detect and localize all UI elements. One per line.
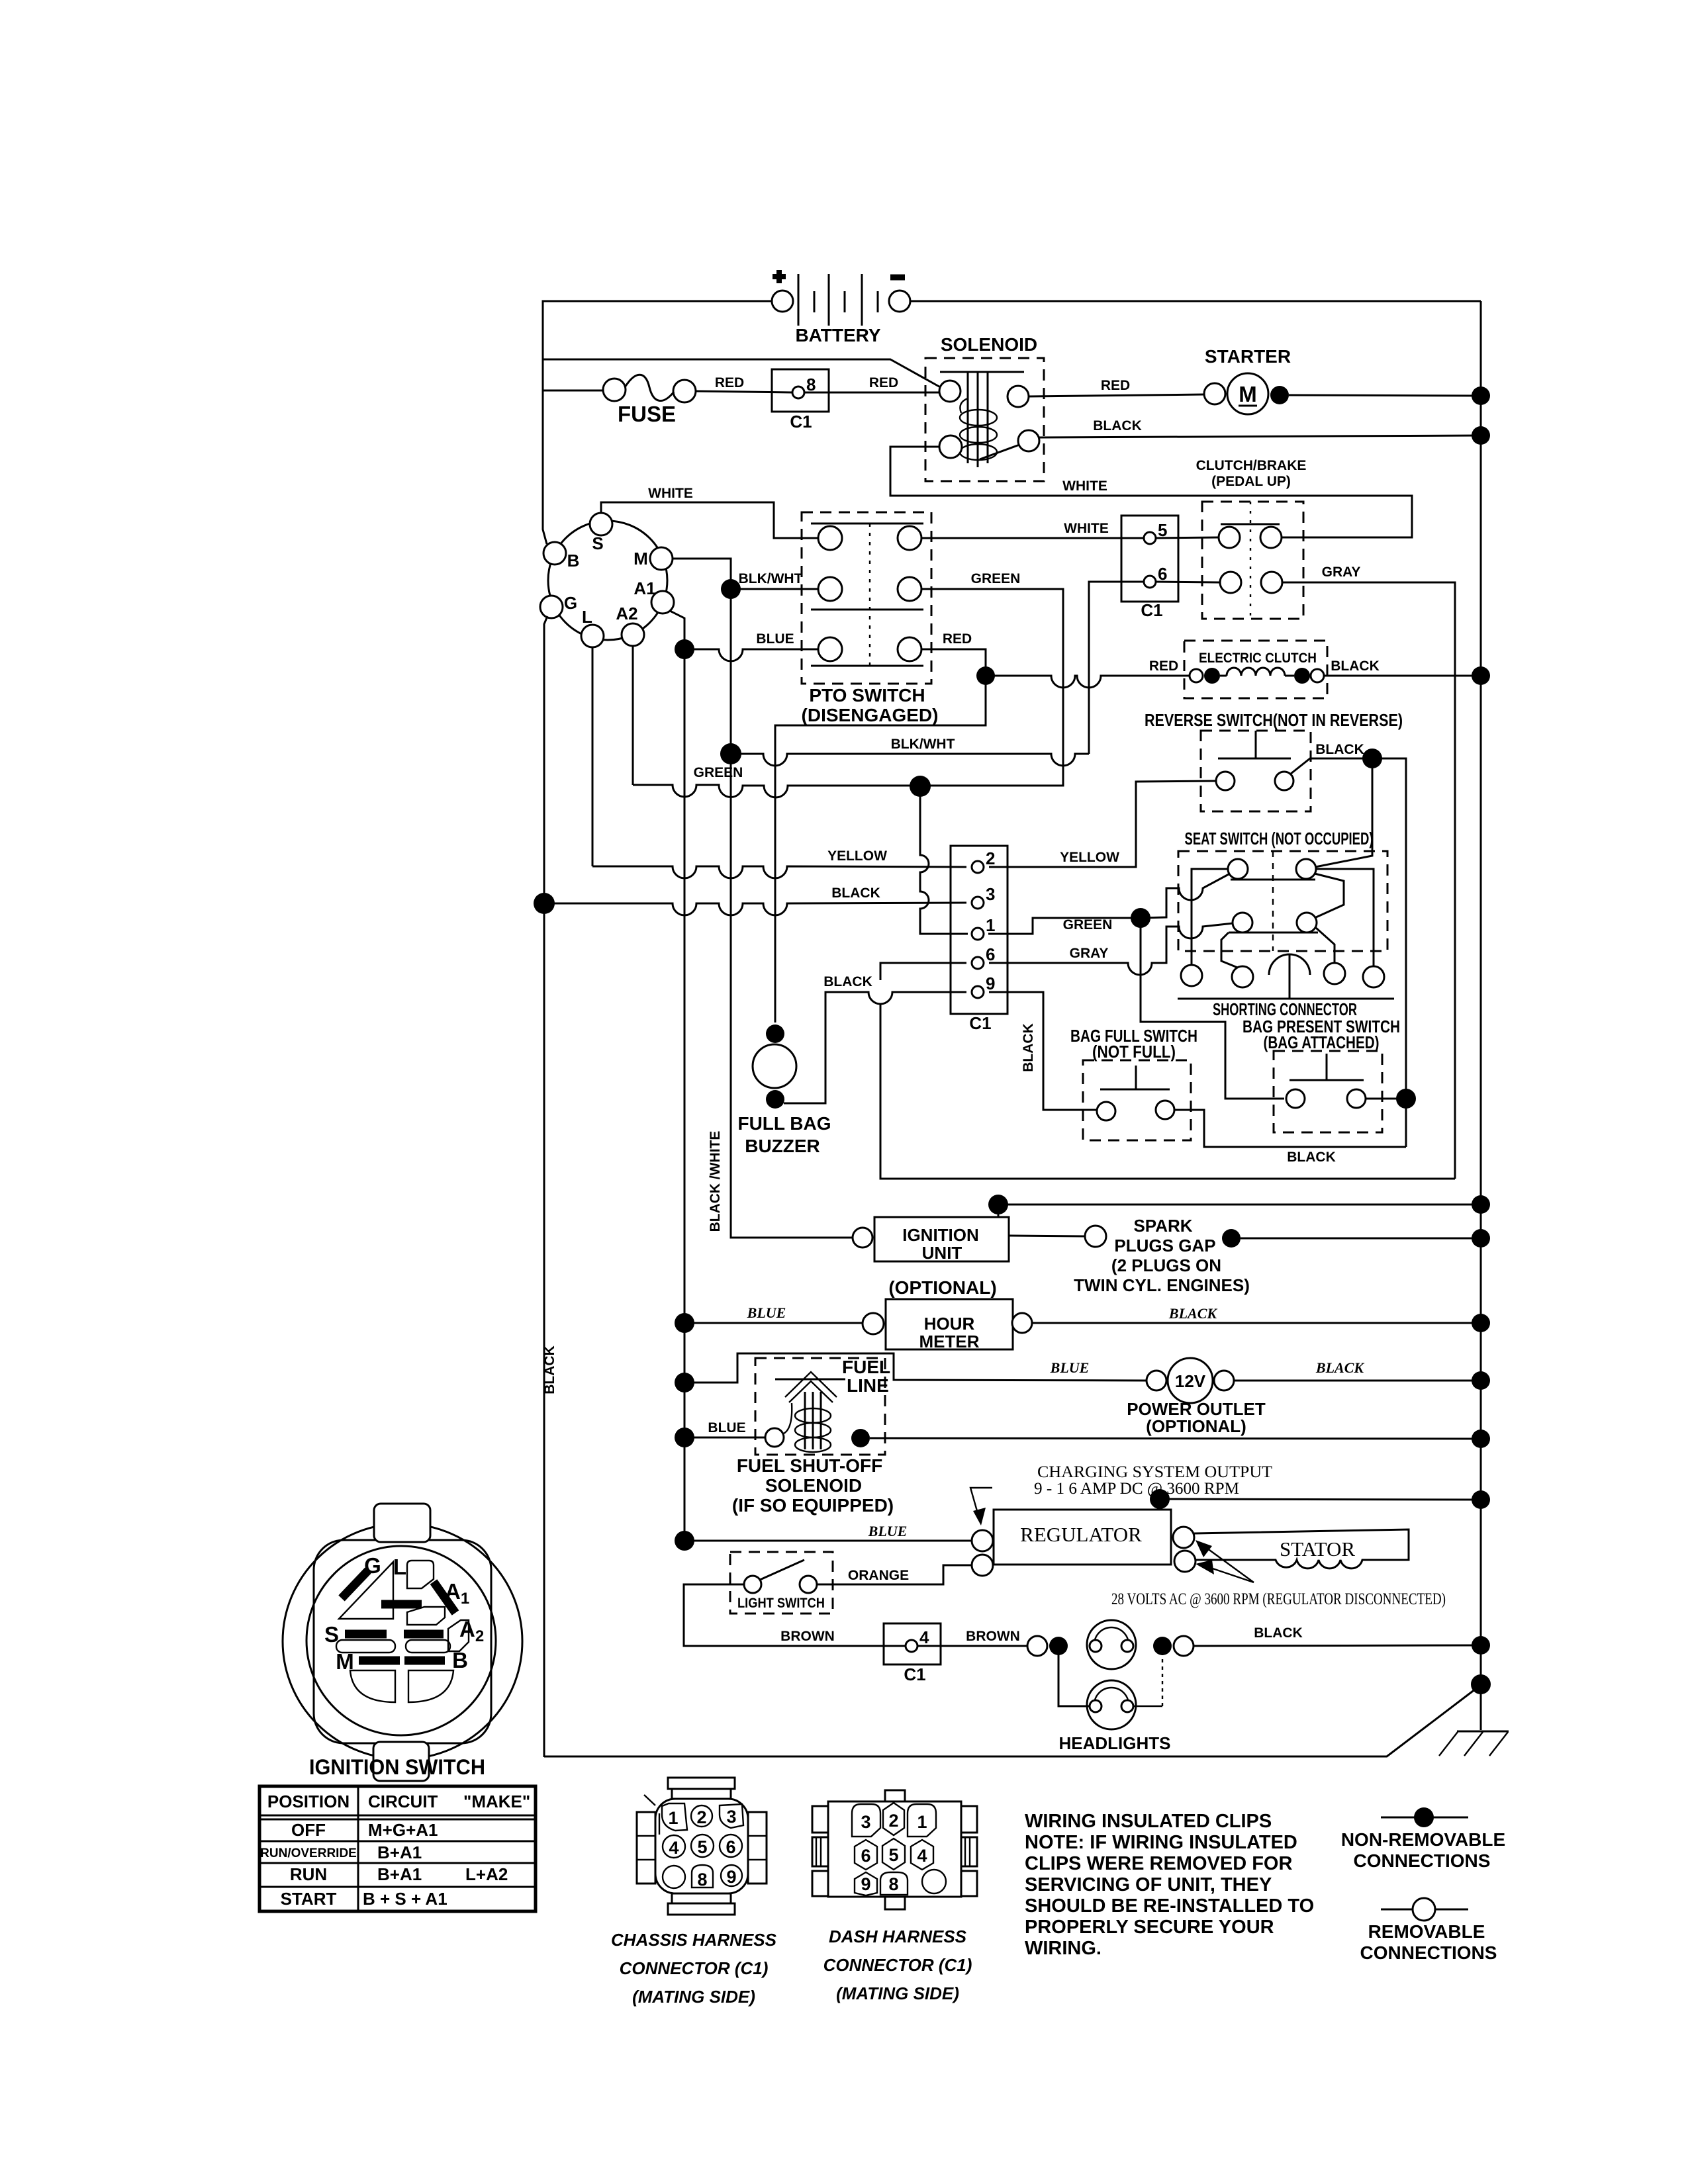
svg-text:BLK/WHT: BLK/WHT <box>891 737 955 752</box>
svg-text:RUN/OVERRIDE: RUN/OVERRIDE <box>260 1846 357 1860</box>
wire: starter to right border <box>1289 395 1481 396</box>
junction: green node <box>910 776 931 797</box>
electric clutch L1 <box>1184 641 1327 698</box>
svg-text:POSITION: POSITION <box>267 1792 350 1811</box>
svg-text:1: 1 <box>917 1812 927 1832</box>
wire BLACK: electric clutch to right border <box>1324 675 1481 677</box>
svg-text:LINE: LINE <box>847 1375 889 1396</box>
wire BLK/WHT: M line to PTO mid-left <box>731 588 818 590</box>
wire BLACK: solenoid lower contact to right border <box>1039 435 1481 437</box>
solenoid K1 <box>925 334 1044 481</box>
svg-text:G: G <box>564 593 577 613</box>
wire GREEN: green node 2 to seat switch top-left (hump over shorting lead) <box>1141 874 1230 918</box>
svg-text:L: L <box>582 607 592 627</box>
svg-text:PLUGS GAP: PLUGS GAP <box>1114 1236 1215 1255</box>
fuse F1 <box>603 375 696 426</box>
svg-text:3: 3 <box>861 1812 870 1832</box>
svg-text:BROWN: BROWN <box>780 1629 835 1644</box>
svg-text:FULL BAG: FULL BAG <box>737 1113 831 1134</box>
connector C1 pins 5/6 <box>1121 516 1178 620</box>
svg-text:GRAY: GRAY <box>1322 565 1361 580</box>
wire: M terminal lead <box>673 559 731 1232</box>
terminal S <box>590 513 612 535</box>
light switch S7 <box>730 1552 833 1614</box>
bag full switch S5 (not full) <box>1070 1026 1197 1140</box>
svg-text:M+G+A1: M+G+A1 <box>368 1820 438 1840</box>
svg-text:4: 4 <box>669 1838 679 1858</box>
svg-text:5: 5 <box>1158 520 1167 540</box>
svg-text:2: 2 <box>986 848 995 868</box>
svg-text:BLUE: BLUE <box>868 1523 908 1539</box>
svg-text:FUSE: FUSE <box>618 402 676 426</box>
ignition switch connector (schematic) <box>540 513 674 647</box>
wire: ignition unit feed to right border <box>998 1204 1481 1206</box>
svg-text:BLACK: BLACK <box>1254 1625 1303 1641</box>
regulator U3 <box>972 1510 1196 1576</box>
12V power outlet J1 <box>1050 1358 1266 1436</box>
svg-text:FUEL SHUT-OFF: FUEL SHUT-OFF <box>737 1455 882 1476</box>
bag present switch S6 (bag attached) <box>1243 1017 1406 1132</box>
svg-text:RED: RED <box>943 631 972 647</box>
key slot cutouts <box>339 1562 393 1619</box>
svg-text:STATOR: STATOR <box>1280 1537 1355 1561</box>
wire: top border from battery negative to right border corner <box>910 300 1481 302</box>
wire BLUE: A1 line to fuel shut-off solenoid <box>684 1437 765 1439</box>
svg-text:BLACK: BLACK <box>1331 659 1380 674</box>
svg-text:BLACK: BLACK <box>823 974 872 989</box>
svg-text:BLACK: BLACK <box>1021 1023 1036 1072</box>
svg-text:9: 9 <box>986 974 995 993</box>
svg-text:CONNECTIONS: CONNECTIONS <box>1360 1942 1497 1963</box>
svg-text:2: 2 <box>696 1807 706 1827</box>
svg-text:WIRING.: WIRING. <box>1025 1938 1102 1959</box>
wire ORANGE: light switch to regulator <box>817 1565 972 1584</box>
wire: fuse to connector C1 pin 8 <box>696 391 793 392</box>
svg-text:B+A1: B+A1 <box>377 1843 422 1862</box>
svg-text:5: 5 <box>888 1845 898 1865</box>
svg-text:GREEN: GREEN <box>1063 917 1113 933</box>
dash harness connector drawing <box>812 1790 977 1909</box>
svg-text:WHITE: WHITE <box>1064 521 1109 536</box>
svg-text:PTO SWITCH: PTO SWITCH <box>809 685 925 705</box>
wire BLACK: headlights return to right border <box>1194 1645 1481 1646</box>
svg-text:S: S <box>592 533 603 553</box>
wire BLUE: fuel solenoid to right border <box>870 1438 1481 1439</box>
svg-text:(IF SO EQUIPPED): (IF SO EQUIPPED) <box>732 1495 894 1516</box>
wire: spark plug return to right border <box>1241 1238 1481 1240</box>
svg-text:NON-REMOVABLE: NON-REMOVABLE <box>1341 1829 1505 1850</box>
wire BLACK: hour meter to right border <box>1032 1322 1481 1324</box>
headlights E1/E2 <box>1027 1620 1194 1753</box>
spark plug gap <box>1074 1216 1250 1295</box>
wire WHITE: PTO top-right to C1 pin 5 to clutch/brake <box>921 537 1145 539</box>
svg-text:BLACK: BLACK <box>1093 418 1142 433</box>
svg-text:C1: C1 <box>790 412 812 432</box>
wire: bottom border (black return) <box>544 1685 1481 1756</box>
svg-text:9 - 1 6 AMP DC @ 3600 RPM: 9 - 1 6 AMP DC @ 3600 RPM <box>1034 1480 1239 1498</box>
wire RED: PTO low-right to red junction <box>775 649 986 1023</box>
svg-text:HOUR: HOUR <box>924 1314 975 1334</box>
wire GREEN: junction to A2 lead (humps over A1,M,red lines) <box>633 785 917 797</box>
svg-text:B+A1: B+A1 <box>377 1864 422 1884</box>
wire: black node right and down to bag present switch <box>1372 758 1406 1147</box>
svg-text:A2: A2 <box>616 604 637 623</box>
svg-text:6: 6 <box>1158 564 1167 584</box>
junction: clutch black at border <box>1472 666 1490 685</box>
svg-text:5: 5 <box>697 1837 707 1857</box>
wire: battery positive feed, top-left <box>543 301 772 359</box>
svg-text:M: M <box>1239 382 1257 406</box>
svg-text:BLUE: BLUE <box>747 1304 786 1321</box>
svg-text:PROPERLY SECURE YOUR: PROPERLY SECURE YOUR <box>1025 1917 1274 1938</box>
svg-text:BLACK: BLACK <box>1315 1359 1364 1376</box>
junction: bag present output <box>1396 1089 1416 1109</box>
junction on M line <box>720 743 741 764</box>
svg-text:BLACK: BLACK <box>1287 1150 1336 1165</box>
wire: seat top-left contact to shorting pin 1 <box>1192 869 1229 965</box>
svg-text:NOTE: IF WIRING INSULATED: NOTE: IF WIRING INSULATED <box>1025 1832 1297 1853</box>
svg-text:8: 8 <box>697 1870 707 1889</box>
svg-text:SEAT SWITCH (NOT OCCUPIED): SEAT SWITCH (NOT OCCUPIED) <box>1185 829 1374 848</box>
svg-text:GRAY: GRAY <box>1070 946 1109 961</box>
svg-text:START: START <box>281 1889 337 1909</box>
svg-text:BLACK: BLACK <box>831 886 880 901</box>
wire: right border (black return) <box>1480 301 1482 1730</box>
stator G1 <box>1194 1529 1409 1569</box>
svg-text:RED: RED <box>715 375 744 390</box>
contact bars <box>342 1570 455 1613</box>
junction: green node 2 <box>1131 908 1150 928</box>
wire WHITE: S terminal to PTO top-left <box>601 502 818 538</box>
wire BROWN: light switch feed to C1 pin 4 <box>684 1584 906 1646</box>
clutch/brake switch S2 (pedal up) <box>1196 458 1307 619</box>
terminal G <box>540 596 563 618</box>
starter motor M1 <box>1204 346 1291 414</box>
ignition unit U1 <box>853 1217 1009 1263</box>
wire BLACK: C1 pin 9 to bag full switch <box>989 992 1098 1110</box>
legend: non-removable connection symbol <box>1341 1807 1505 1871</box>
svg-text:REVERSE SWITCH(NOT IN REVERSE): REVERSE SWITCH(NOT IN REVERSE) <box>1145 710 1403 730</box>
wire: battery feed down-left to ignition B terminal <box>543 390 547 544</box>
wire BLACK: ground border to C1 pin 3 (dips under A1,M,red) <box>544 903 966 915</box>
wire: green node 2 down to bag present switch left contact <box>1141 918 1284 1099</box>
svg-text:RED: RED <box>1101 378 1130 393</box>
svg-text:G: G <box>364 1553 381 1578</box>
svg-text:A1: A1 <box>633 578 655 598</box>
pins: dome/octagon shapes <box>852 1804 880 1837</box>
svg-text:TWIN CYL. ENGINES): TWIN CYL. ENGINES) <box>1074 1275 1250 1295</box>
svg-text:BLUE: BLUE <box>708 1420 745 1435</box>
svg-text:BROWN: BROWN <box>966 1629 1020 1644</box>
reverse switch S3 (not in reverse) <box>1145 710 1403 811</box>
junction: black on ground border <box>534 893 555 914</box>
legend: removable connection symbol <box>1360 1898 1497 1963</box>
svg-text:YELLOW: YELLOW <box>827 848 887 864</box>
wire: seat top-right to shorting pin 5 <box>1316 869 1374 968</box>
wire RED: solenoid to starter <box>1029 394 1204 396</box>
wire: L terminal lead down <box>592 647 594 866</box>
svg-text:WHITE: WHITE <box>648 486 693 501</box>
svg-text:FUEL: FUEL <box>842 1357 890 1377</box>
wire BLK/WHT: C1 pin 6 left lead down <box>1089 582 1145 754</box>
wire WHITE: solenoid lower-left to clutch/brake upper-right <box>890 447 1412 537</box>
wire: black node down to seat switch top-right <box>1315 758 1372 867</box>
wire: M line into ignition unit <box>731 1232 853 1238</box>
wire GRAY: bottom routing <box>880 963 1455 1179</box>
wire BLK/WHT: M line junction to C1 pin6 lead (dips under red and green verticals) <box>731 754 1089 766</box>
wire RED: C1 pin 8 to solenoid contact <box>804 392 939 394</box>
wire BLACK: buzzer to C1 pin 9 (dip under gray lead) <box>784 992 966 1103</box>
wire BLK/WHT: C1 pin 6 to clutch/brake lower-left <box>1156 582 1220 582</box>
svg-text:GREEN: GREEN <box>971 571 1021 586</box>
svg-text:B + S + A1: B + S + A1 <box>363 1889 447 1909</box>
svg-text:C1: C1 <box>969 1013 991 1033</box>
svg-text:28 VOLTS AC @ 3600 RPM (REGULA: 28 VOLTS AC @ 3600 RPM (REGULATOR DISCON… <box>1111 1590 1446 1608</box>
junction: black at border <box>1472 426 1490 445</box>
svg-text:BLUE: BLUE <box>1050 1359 1090 1376</box>
svg-text:SPARK: SPARK <box>1133 1216 1192 1236</box>
svg-text:12V: 12V <box>1175 1371 1206 1391</box>
wire GREEN: C1 pin 1 right to green node 2 <box>988 918 1141 934</box>
connector C1 pins 2,3,1,6,9 <box>951 846 1008 1033</box>
svg-text:SHOULD BE RE-INSTALLED TO: SHOULD BE RE-INSTALLED TO <box>1025 1895 1314 1917</box>
svg-text:BLACK: BLACK <box>1315 742 1364 757</box>
wire BLACK: 12V outlet to right border <box>1234 1380 1481 1382</box>
ignition switch position table <box>259 1786 536 1911</box>
svg-text:1: 1 <box>668 1808 678 1828</box>
svg-text:CHASSIS HARNESS: CHASSIS HARNESS <box>611 1930 777 1950</box>
wire: seat mid-right to top-right link <box>1315 874 1344 917</box>
junction: reverse switch black node <box>1362 749 1382 768</box>
svg-text:"MAKE": "MAKE" <box>463 1792 530 1811</box>
junction: starter red at border <box>1472 387 1490 405</box>
wire: shorting pin 4 link <box>1316 928 1335 963</box>
wire BLACK: bag full right to bag present junction <box>1174 1110 1406 1147</box>
svg-text:B: B <box>452 1648 468 1672</box>
svg-text:IGNITION SWITCH: IGNITION SWITCH <box>309 1755 485 1779</box>
fuel shut-off solenoid L2 <box>755 1357 890 1455</box>
svg-text:ELECTRIC CLUTCH: ELECTRIC CLUTCH <box>1199 651 1317 666</box>
svg-text:(MATING SIDE): (MATING SIDE) <box>632 1987 755 2007</box>
svg-text:BLACK: BLACK <box>1168 1305 1217 1322</box>
svg-text:2: 2 <box>888 1811 898 1831</box>
svg-text:M: M <box>633 549 648 569</box>
svg-text:YELLOW: YELLOW <box>1060 850 1119 865</box>
wire YELLOW: L lead right to C1 pin 2 (dips under A1,M,red) <box>592 866 966 878</box>
svg-text:(NOT FULL): (NOT FULL) <box>1092 1042 1176 1062</box>
wiring note paragraph <box>1025 1811 1314 1959</box>
svg-text:(DISENGAGED): (DISENGAGED) <box>802 705 939 725</box>
svg-text:M: M <box>336 1649 354 1674</box>
wire BROWN: C1 pin 4 to headlights <box>917 1645 1027 1647</box>
svg-text:LIGHT SWITCH: LIGHT SWITCH <box>737 1596 825 1611</box>
svg-text:WIRING INSULATED CLIPS: WIRING INSULATED CLIPS <box>1025 1811 1272 1832</box>
svg-text:CONNECTOR (C1): CONNECTOR (C1) <box>620 1958 769 1978</box>
svg-text:1: 1 <box>986 915 995 935</box>
svg-text:(2 PLUGS ON: (2 PLUGS ON <box>1111 1255 1221 1275</box>
wire BLUE: A1 line to 12V outlet via hour meter bottom <box>684 1353 1147 1383</box>
connector C1 pin 4 <box>884 1623 941 1684</box>
svg-text:CHARGING SYSTEM OUTPUT: CHARGING SYSTEM OUTPUT <box>1037 1463 1272 1481</box>
wire YELLOW: C1 pin 2 to reverse switch left contact <box>989 781 1216 867</box>
svg-text:IGNITION: IGNITION <box>902 1225 979 1245</box>
svg-text:4: 4 <box>917 1846 927 1866</box>
svg-text:3: 3 <box>726 1807 736 1827</box>
terminal M <box>650 547 673 570</box>
PTO switch S1 (disengaged) <box>802 512 939 725</box>
svg-text:UNIT: UNIT <box>922 1243 962 1263</box>
svg-text:B: B <box>567 551 580 570</box>
svg-text:BLACK: BLACK <box>542 1345 557 1394</box>
svg-text:CLIPS WERE REMOVED FOR: CLIPS WERE REMOVED FOR <box>1025 1853 1292 1874</box>
wire: feed down to fuse <box>543 359 604 390</box>
svg-text:3: 3 <box>986 884 995 904</box>
svg-text:6: 6 <box>861 1846 870 1866</box>
svg-text:4: 4 <box>919 1627 929 1647</box>
svg-text:ORANGE: ORANGE <box>848 1568 909 1583</box>
svg-text:6: 6 <box>986 944 995 964</box>
svg-text:BLK/WHT: BLK/WHT <box>739 571 803 586</box>
svg-text:(OPTIONAL): (OPTIONAL) <box>1146 1416 1246 1436</box>
shorting connector <box>1178 928 1394 1019</box>
wire: A1 terminal lead down <box>670 611 684 1535</box>
wire: battery feed to solenoid coil <box>543 359 943 388</box>
svg-text:6: 6 <box>726 1837 735 1857</box>
wire: A2 terminal lead down <box>632 646 634 785</box>
svg-text:HEADLIGHTS: HEADLIGHTS <box>1059 1733 1171 1753</box>
wire: regulator output to right border <box>1160 1499 1481 1500</box>
svg-text:9: 9 <box>726 1867 736 1887</box>
svg-text:CONNECTIONS: CONNECTIONS <box>1354 1850 1491 1871</box>
junction on M line <box>721 579 741 599</box>
terminal A2 <box>622 623 644 646</box>
svg-text:BUZZER: BUZZER <box>745 1136 820 1156</box>
svg-text:BLUE: BLUE <box>756 631 794 647</box>
svg-text:RED: RED <box>1149 659 1178 674</box>
junction: red node <box>976 666 995 685</box>
wire: ground from G terminal down the left border <box>544 616 547 1757</box>
svg-text:C1: C1 <box>904 1664 925 1684</box>
svg-text:SOLENOID: SOLENOID <box>941 334 1037 355</box>
svg-text:SERVICING OF UNIT, THEY: SERVICING OF UNIT, THEY <box>1025 1874 1272 1895</box>
svg-text:BLACK /WHITE: BLACK /WHITE <box>708 1131 723 1232</box>
hour meter U2 <box>863 1299 1032 1351</box>
svg-text:L+A2: L+A2 <box>465 1864 508 1884</box>
svg-text:REMOVABLE: REMOVABLE <box>1368 1921 1485 1942</box>
svg-text:BATTERY: BATTERY <box>795 325 880 345</box>
wire BLUE: A1 line to hour meter <box>684 1322 863 1324</box>
terminal B <box>543 542 566 565</box>
chassis harness connector drawing <box>637 1778 767 1915</box>
wire GREEN: PTO mid-right, right then down <box>921 589 1063 786</box>
svg-text:METER: METER <box>919 1332 980 1351</box>
svg-text:REGULATOR: REGULATOR <box>1020 1523 1142 1546</box>
svg-text:(OPTIONAL): (OPTIONAL) <box>888 1277 996 1298</box>
battery BT1 <box>772 270 910 345</box>
seat switch S4 (not occupied) <box>1178 829 1387 968</box>
junction: ignition unit top feed <box>988 1195 1008 1214</box>
arrow to regulator charging terminal <box>970 1488 992 1516</box>
wire GRAY: C1 pin 6 right to seat switch mid-left (dip under green node lead) <box>989 923 1233 975</box>
svg-text:STARTER: STARTER <box>1205 346 1291 367</box>
svg-text:CONNECTOR (C1): CONNECTOR (C1) <box>823 1955 972 1975</box>
svg-text:9: 9 <box>861 1874 870 1894</box>
svg-text:L: L <box>393 1555 406 1579</box>
svg-text:C1: C1 <box>1141 600 1162 620</box>
svg-text:CIRCUIT: CIRCUIT <box>368 1792 438 1811</box>
svg-text:S: S <box>324 1622 339 1647</box>
wire GREEN: green node down to C1 pin 1 (bulges over yellow and black) <box>920 786 968 934</box>
svg-text:(BAG ATTACHED): (BAG ATTACHED) <box>1264 1032 1380 1052</box>
svg-text:(PEDAL UP): (PEDAL UP) <box>1211 474 1291 489</box>
ground symbol <box>1439 1731 1509 1756</box>
wire RED: red node to electric clutch (humps over green and blk/wht verticals) <box>986 676 1190 688</box>
svg-text:OFF: OFF <box>291 1820 326 1840</box>
terminal A1 <box>651 591 674 614</box>
wire GRAY: clutch/brake lower-right, right border route to C1 pin 6 lower <box>1282 582 1455 1179</box>
junction: regulator B+ output <box>1150 1489 1170 1509</box>
svg-text:(MATING SIDE): (MATING SIDE) <box>836 1983 959 2003</box>
wire BLUE: A1 line to regulator <box>684 1540 971 1542</box>
ignition switch detail drawing <box>283 1504 522 1781</box>
svg-text:GREEN: GREEN <box>694 765 743 780</box>
svg-text:RUN: RUN <box>290 1864 327 1884</box>
svg-text:RED: RED <box>869 375 898 390</box>
terminal L <box>581 625 604 647</box>
junction on A1 line <box>675 639 694 659</box>
wire BLUE: A1 line to PTO low-left (hump over M line) <box>684 649 818 661</box>
svg-text:SOLENOID: SOLENOID <box>765 1475 862 1496</box>
svg-text:8: 8 <box>888 1874 898 1894</box>
wire: ignition unit output to spark plug <box>1009 1236 1085 1236</box>
svg-text:DASH HARNESS: DASH HARNESS <box>829 1927 967 1946</box>
svg-text:WHITE: WHITE <box>1062 478 1107 494</box>
wire: seat mid bar to shorting pin 2 <box>1221 933 1239 968</box>
svg-text:CLUTCH/BRAKE: CLUTCH/BRAKE <box>1196 458 1307 473</box>
connector C1 pin 8 <box>772 369 829 432</box>
full bag buzzer BZ1 <box>737 1024 831 1156</box>
